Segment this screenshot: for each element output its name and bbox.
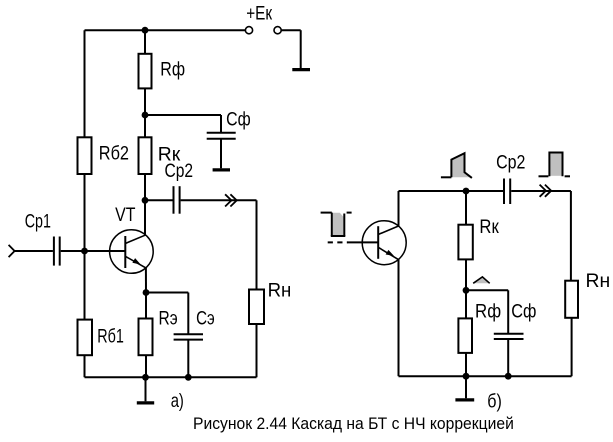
wire: emitter node down to Re <box>145 293 147 319</box>
capacitor C_p1 right plate <box>59 237 61 266</box>
resistor Rb1 body <box>78 320 93 356</box>
node: bottom rail junction at Ce <box>185 374 192 381</box>
waveform: input pulse baseline right segment <box>347 212 352 214</box>
waveform: pre-Cp2 pulse outline <box>451 153 472 178</box>
wire: emitter node to Ce branch <box>146 292 188 294</box>
waveform: small gray triangle marker (b) <box>473 277 490 283</box>
transistor VT collector diagonal <box>125 235 146 244</box>
node: bottom rail junction at Cf (b) <box>505 373 512 380</box>
waveform: pre-Cp2 pulse baseline <box>441 176 452 178</box>
wire: collector up to top rail (b) <box>398 191 400 226</box>
node: junction of base wire with bias column <box>81 248 88 255</box>
transistor VT emitter arrow <box>132 258 140 265</box>
wire: branch to Cf (a) <box>145 114 221 116</box>
svg-text:Рисунок 2.44 Каскад на БТ с Н: Рисунок 2.44 Каскад на БТ с НЧ коррекцие… <box>193 414 514 433</box>
wire: Rn (b) bottom lead <box>571 318 573 376</box>
svg-text:а): а) <box>171 390 184 411</box>
wire: Cf (a) bottom lead <box>220 139 222 169</box>
transistor (b) base bar <box>377 226 379 259</box>
node: top rail junction at Rk (b) <box>463 188 470 195</box>
capacitor C_p2 (a) left plate <box>173 186 175 214</box>
svg-text:Rк: Rк <box>479 216 499 237</box>
waveform: post-Cp2 baseline left <box>539 175 549 177</box>
wire: Cp1 to base <box>61 250 126 252</box>
wire: middle column from rail through Rf and Rk to collector <box>144 30 146 235</box>
capacitor C_p2 (b) right plate <box>509 179 511 205</box>
resistor Rf (b) body <box>458 318 472 353</box>
transistor VT emitter wire down <box>145 268 147 293</box>
resistor Rn (a) body <box>249 290 264 325</box>
wire: Cp2 (b) to output corner <box>511 190 571 192</box>
waveform: post-Cp2 pulse outline <box>549 153 562 177</box>
capacitor Cf (b) top plate <box>494 333 524 335</box>
resistor Rk (b) body <box>458 225 472 260</box>
capacitor Cf (a) top plate <box>207 132 236 134</box>
wire: Re bottom lead <box>145 355 147 377</box>
node: junction Rf/Rk/Cf <box>142 112 149 119</box>
waveform: pre-Cp2 distorted pulse (b) gray fill <box>452 155 469 178</box>
terminal +Ek right circle <box>274 27 281 34</box>
waveform: post-Cp2 clean pulse gray fill <box>550 154 561 176</box>
wire: Cf (b) bottom lead <box>507 339 509 376</box>
node: emitter junction <box>143 289 150 296</box>
resistor Rf (a) body <box>139 54 152 89</box>
resistor Re body <box>139 319 153 356</box>
waveform: input pulse baseline left segment <box>321 212 332 214</box>
ground: supply ground bar <box>292 68 310 71</box>
capacitor Ce bottom plate <box>174 339 203 341</box>
ground: bottom ground bar (b) <box>455 398 474 401</box>
node: bottom rail junction at ground (b) <box>463 373 470 380</box>
svg-text:Rн: Rн <box>586 271 611 292</box>
svg-text:Ср2: Ср2 <box>165 160 194 182</box>
wire: Cf (b) top lead <box>507 290 509 333</box>
svg-text:VT: VT <box>115 204 136 226</box>
capacitor C_p2 (b) left plate <box>503 179 505 205</box>
wire: top rail (b) <box>399 190 504 192</box>
transistor (b) emitter arrow <box>386 250 394 256</box>
transistor (b) collector diagonal <box>378 226 398 235</box>
svg-text:Rэ: Rэ <box>159 307 178 329</box>
capacitor Ce top plate <box>174 333 203 335</box>
waveform: input pulse right edge <box>343 214 345 237</box>
wire: Rf (b) top lead <box>465 290 467 318</box>
wire: from +Ek right terminal to ground drop <box>281 29 301 31</box>
svg-text:Rн: Rн <box>268 279 292 300</box>
transistor VT emitter diagonal <box>125 256 146 268</box>
wire: ground stub (b) <box>465 376 467 398</box>
waveform: input pulse bottom edge <box>331 235 346 237</box>
wire: Rn (a) bottom lead <box>256 324 258 377</box>
svg-text:Ср1: Ср1 <box>25 211 51 232</box>
node: collector junction with Cp2 (a) <box>142 197 149 204</box>
wire: top supply rail (a) <box>85 29 246 31</box>
svg-text:Rф: Rф <box>160 58 185 80</box>
svg-text:Rф: Rф <box>475 300 501 321</box>
transistor VT circle <box>110 230 154 274</box>
capacitor C_p1 left plate <box>53 237 55 266</box>
ground: Cf (a) ground bar <box>213 168 230 171</box>
wire: bottom rail (b) <box>399 375 572 377</box>
wire: left bias column (Rb2/Rb1) <box>84 30 86 377</box>
node: top rail junction above Rf <box>142 27 149 34</box>
wire: Ce top lead <box>187 293 189 334</box>
wire: output drop to Rn (a) <box>256 200 258 289</box>
resistor Rn (b) body <box>565 281 578 318</box>
wire: Cp2 (a) to output corner <box>181 199 257 201</box>
node: bottom rail junction at ground stub <box>142 374 149 381</box>
wire: Rk (b) top lead <box>465 191 467 225</box>
wire: branch to Cf (b) <box>466 289 508 291</box>
svg-text:+Ек: +Ек <box>246 2 272 24</box>
svg-text:б): б) <box>487 390 502 412</box>
wire: Rf (b) bottom lead <box>465 353 467 376</box>
node: input terminal chevron <box>9 245 15 257</box>
wire: emitter down to bottom rail (b) <box>398 259 400 376</box>
resistor Rk (a) body <box>139 137 152 174</box>
svg-text:Сф: Сф <box>511 300 536 321</box>
wire: solid base lead (b) <box>347 241 378 243</box>
wire: collector node to Cp2 (a) <box>145 199 173 201</box>
svg-text:Ср2: Ср2 <box>496 151 525 173</box>
terminal +Ek left circle <box>245 27 252 34</box>
svg-text:Rб2: Rб2 <box>99 142 129 163</box>
transistor (b) emitter diagonal <box>378 247 398 259</box>
resistor Rb2 body <box>78 137 92 174</box>
capacitor C_p2 (a) right plate <box>179 186 181 214</box>
wire: bottom rail (a) <box>85 376 257 378</box>
transistor (b) circle <box>362 221 406 265</box>
svg-text:Rб1: Rб1 <box>97 326 124 347</box>
svg-text:Сф: Сф <box>226 108 251 130</box>
wire: dashed base lead (b) <box>328 241 348 243</box>
svg-text:Сэ: Сэ <box>196 307 215 329</box>
capacitor Cf (a) bottom plate <box>207 138 236 140</box>
wire: vertical drop to ground of supply <box>300 30 302 68</box>
waveform: input negative pulse (b) gray fill <box>333 213 344 235</box>
node: output arrow chevrons (a) <box>225 194 231 206</box>
node: junction Rk/Rf/Cf (b) <box>463 287 470 294</box>
node: output arrow chevrons (b) <box>540 185 546 197</box>
wire: Ce bottom lead <box>187 340 189 378</box>
transistor VT base bar <box>124 236 126 268</box>
wire: Rk (b) bottom lead <box>465 259 467 290</box>
ground: bottom ground bar (a) <box>137 401 154 404</box>
capacitor Cf (b) bottom plate <box>494 338 524 340</box>
waveform: input pulse left edge <box>331 213 333 236</box>
wire: Cf (a) top lead <box>220 115 222 133</box>
wire: output drop to Rn (b) <box>570 191 572 281</box>
wire: ground stub (a) <box>145 377 147 401</box>
waveform: post-Cp2 baseline right <box>565 175 570 177</box>
wire: input lead to Cp1 <box>14 250 53 252</box>
